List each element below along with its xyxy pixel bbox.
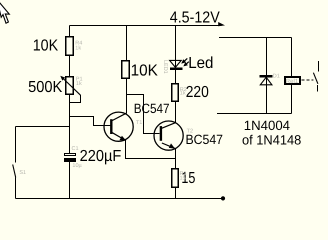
resistor R5 — [171, 168, 179, 188]
node supply arrow — [218, 22, 225, 26]
potentiometer P1 arrow — [62, 77, 81, 95]
transistor Q1 emitter diagonal — [112, 133, 126, 141]
relay contact top lead — [318, 61, 320, 71]
svg-text:10µ: 10µ — [72, 163, 82, 169]
svg-text:of 1N4148: of 1N4148 — [242, 133, 301, 148]
LED emission arrows — [183, 58, 188, 62]
svg-text:T2: T2 — [187, 129, 193, 135]
svg-text:Led: Led — [188, 55, 213, 72]
transistor Q2 circle — [154, 121, 183, 150]
diode D1 triangle — [260, 77, 272, 85]
svg-text:1k: 1k — [76, 81, 82, 87]
diode D1 cathode bar — [260, 75, 273, 77]
wire relay coil bottom lead — [291, 85, 293, 114]
svg-text:BC547: BC547 — [134, 101, 170, 116]
wire R2 to T2 collector — [175, 102, 177, 123]
wire relay branch bottom — [217, 113, 292, 115]
capacitor C1 bottom plate — [64, 158, 76, 162]
node bottom terminal dot — [221, 196, 225, 200]
wire R4 top lead — [69, 26, 71, 37]
svg-text:500K: 500K — [28, 79, 62, 96]
wire LED to R2 — [175, 70, 177, 84]
wire top rail — [70, 25, 222, 27]
resistor R4 — [65, 36, 74, 56]
svg-text:S1: S1 — [19, 170, 26, 176]
transistor Q2 base bar — [160, 126, 162, 141]
svg-text:220µF: 220µF — [80, 148, 122, 165]
relay contact bottom lead — [317, 85, 319, 92]
relay Rel1 coil box — [284, 76, 301, 85]
wire bottom rail — [16, 198, 222, 200]
svg-text:Rel1: Rel1 — [286, 78, 299, 85]
relay contact blade — [313, 73, 318, 84]
svg-text:15: 15 — [180, 176, 186, 182]
svg-text:1k: 1k — [180, 90, 186, 96]
wire R5 bottom lead — [175, 187, 177, 199]
potentiometer P1 — [65, 76, 74, 95]
svg-text:220: 220 — [186, 84, 209, 101]
svg-text:10K: 10K — [131, 63, 159, 80]
wire R3 top lead — [126, 26, 128, 61]
LED cathode bar — [170, 68, 182, 70]
wire S1 branch — [16, 126, 70, 128]
wire LED top lead — [175, 26, 177, 61]
transistor Q2 emitter diagonal — [162, 143, 175, 149]
wire relay coil top lead — [291, 38, 293, 77]
wire D1 bottom lead — [266, 85, 268, 114]
wire C1 bottom lead — [69, 162, 71, 199]
wire R3 to T1 collector — [126, 78, 128, 113]
transistor Q2 collector diagonal — [162, 123, 176, 129]
resistor R2 — [171, 83, 179, 102]
svg-text:4.5-12V: 4.5-12V — [170, 9, 220, 26]
svg-text:10K: 10K — [33, 37, 59, 54]
mouse cursor — [0, 0, 9, 23]
wire P1 wiper tail vertical — [70, 95, 81, 103]
wire R4 to P1 — [69, 55, 71, 76]
wire relay branch top — [219, 37, 292, 39]
wire D1 top lead — [266, 38, 268, 76]
transistor Q1 base bar — [110, 119, 112, 134]
switch S1 bottom lead — [15, 178, 17, 199]
transistor Q1 collector diagonal — [112, 113, 126, 120]
resistor R3 — [121, 60, 130, 79]
capacitor C1 top plate — [64, 153, 76, 156]
svg-text:1k: 1k — [75, 46, 81, 52]
transistor Q1 circle — [104, 112, 133, 141]
LED triangle — [170, 60, 182, 67]
switch S1 blade — [13, 165, 16, 178]
wire base branch jog — [70, 117, 111, 126]
wire T1 emitter down and across — [126, 140, 176, 159]
wire branch to T2 base jog — [127, 95, 160, 134]
wire T2 emitter to R5 — [175, 149, 177, 168]
svg-text:C1: C1 — [72, 146, 79, 152]
wire dashed mechanical link — [302, 79, 314, 81]
svg-text:T1: T1 — [136, 120, 142, 126]
switch S1 top lead — [15, 127, 17, 163]
svg-text:1N4004: 1N4004 — [244, 118, 291, 133]
svg-text:D1: D1 — [273, 73, 280, 79]
wire main vertical node A — [69, 94, 71, 154]
svg-text:LED1: LED1 — [162, 60, 168, 74]
